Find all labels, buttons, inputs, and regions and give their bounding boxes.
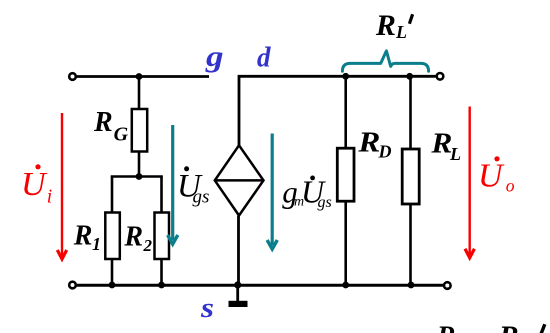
wire: gate top horizontal	[76, 75, 209, 78]
wire: RL upper vertical	[409, 76, 412, 149]
label RL	[430, 129, 461, 164]
svg-text:gs: gs	[318, 194, 332, 211]
label R1	[73, 221, 101, 254]
wire: bottom rail	[76, 284, 444, 287]
node: RD top dot	[342, 73, 349, 80]
svg-text:gs: gs	[193, 187, 210, 208]
brace RL' (teal)	[342, 51, 428, 71]
svg-text:R: R	[357, 128, 380, 159]
wire: RD upper vertical	[344, 76, 347, 149]
label gmUgs (black)	[282, 174, 331, 211]
svg-text:R: R	[375, 9, 396, 42]
wire: R2 branch lower	[160, 259, 163, 285]
svg-text:o: o	[506, 176, 515, 196]
wire: RG vertical upper	[138, 77, 141, 111]
svg-text:R: R	[436, 321, 456, 333]
resistor RD	[337, 148, 354, 201]
node: R1/R2 top junction dot	[136, 173, 143, 180]
resistor R1	[105, 213, 120, 260]
svg-text:R: R	[93, 107, 113, 138]
wire: R1 branch upper	[111, 177, 114, 214]
terminal: top-left input	[69, 73, 76, 80]
label R2	[123, 222, 152, 255]
partial formula bottom right (clipped)	[436, 320, 545, 333]
wire: R1 branch lower	[111, 259, 114, 285]
ground	[236, 285, 239, 302]
node: R1 bottom dot	[109, 282, 116, 289]
node: RL top dot	[406, 73, 413, 80]
wire: R2 branch upper	[160, 177, 163, 214]
svg-text:s: s	[200, 293, 214, 324]
wire: R1/R2 top bar	[111, 175, 163, 178]
wire: RD lower vertical	[344, 201, 347, 285]
svg-text:R: R	[498, 320, 519, 333]
node: s junction dot	[234, 281, 241, 288]
terminal: bottom-right output	[444, 282, 451, 289]
svg-text:L: L	[395, 22, 407, 42]
arrow Uo (red, output voltage)	[465, 107, 474, 258]
svg-text:1: 1	[92, 234, 101, 254]
label Uo (red)	[478, 156, 515, 195]
label Ui (red)	[21, 164, 52, 207]
node: gate junction dot	[136, 73, 143, 80]
svg-text:R: R	[73, 221, 93, 252]
node: R2 bottom dot	[158, 282, 165, 289]
wire: source lower vertical	[237, 216, 240, 286]
label RL' (above brace)	[375, 9, 413, 42]
wire: drain top horizontal	[239, 76, 436, 145]
svg-text:G: G	[114, 123, 129, 145]
svg-text:U: U	[478, 158, 505, 195]
wire: RL lower vertical	[409, 204, 412, 285]
wire: RG vertical lower	[138, 152, 141, 177]
svg-text:g: g	[205, 40, 224, 73]
label RD	[357, 128, 391, 162]
terminal: bottom-left input	[69, 282, 76, 289]
arrow Ugs (teal)	[168, 125, 178, 244]
svg-text:L: L	[449, 144, 461, 164]
svg-text:D: D	[378, 141, 392, 161]
node: RL bottom dot	[408, 282, 415, 289]
arrow Ui (red, input voltage)	[57, 113, 66, 259]
resistor R2	[155, 213, 170, 260]
terminal: top-right output	[437, 73, 444, 80]
svg-text:U: U	[21, 166, 48, 203]
label Ugs (black)	[177, 166, 209, 207]
svg-text:i: i	[47, 187, 52, 208]
node: RD bottom dot	[342, 282, 349, 289]
svg-text:R: R	[123, 222, 143, 253]
resistor RG	[132, 109, 147, 152]
arrow gmUgs (teal, source current)	[267, 134, 277, 250]
label RG	[93, 107, 129, 145]
resistor RL	[402, 149, 419, 204]
current source gmUgs diamond	[215, 145, 264, 215]
svg-text:d: d	[257, 41, 271, 73]
svg-text:2: 2	[143, 236, 153, 255]
